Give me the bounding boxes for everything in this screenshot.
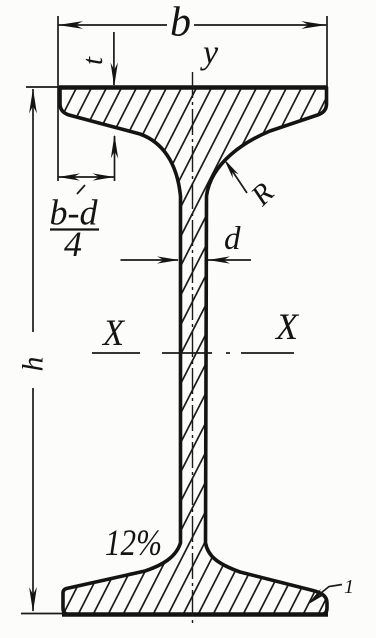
svg-text:d: d [224,221,241,257]
svg-text:1: 1 [344,576,354,598]
svg-text:12%: 12% [105,523,162,564]
svg-text:h: h [17,357,50,372]
svg-text:y: y [200,35,219,72]
svg-text:b: b [170,0,191,46]
dimension b [58,16,327,181]
horizontal centerline X axis [92,352,294,354]
leader R [227,163,247,193]
top edge thick [59,85,328,89]
beam outline [60,88,327,615]
vertical centerline y axis [192,72,194,625]
dimension (b-d)/4 [58,176,115,178]
svg-text:4: 4 [64,224,82,264]
leader 1 [310,585,342,603]
svg-text:X: X [274,307,299,348]
dimension h [21,87,62,614]
dimension t [113,32,115,85]
svg-text:t: t [77,56,109,65]
svg-text:X: X [101,313,125,354]
dimension d [121,259,179,261]
bottom edge thick [62,612,328,616]
